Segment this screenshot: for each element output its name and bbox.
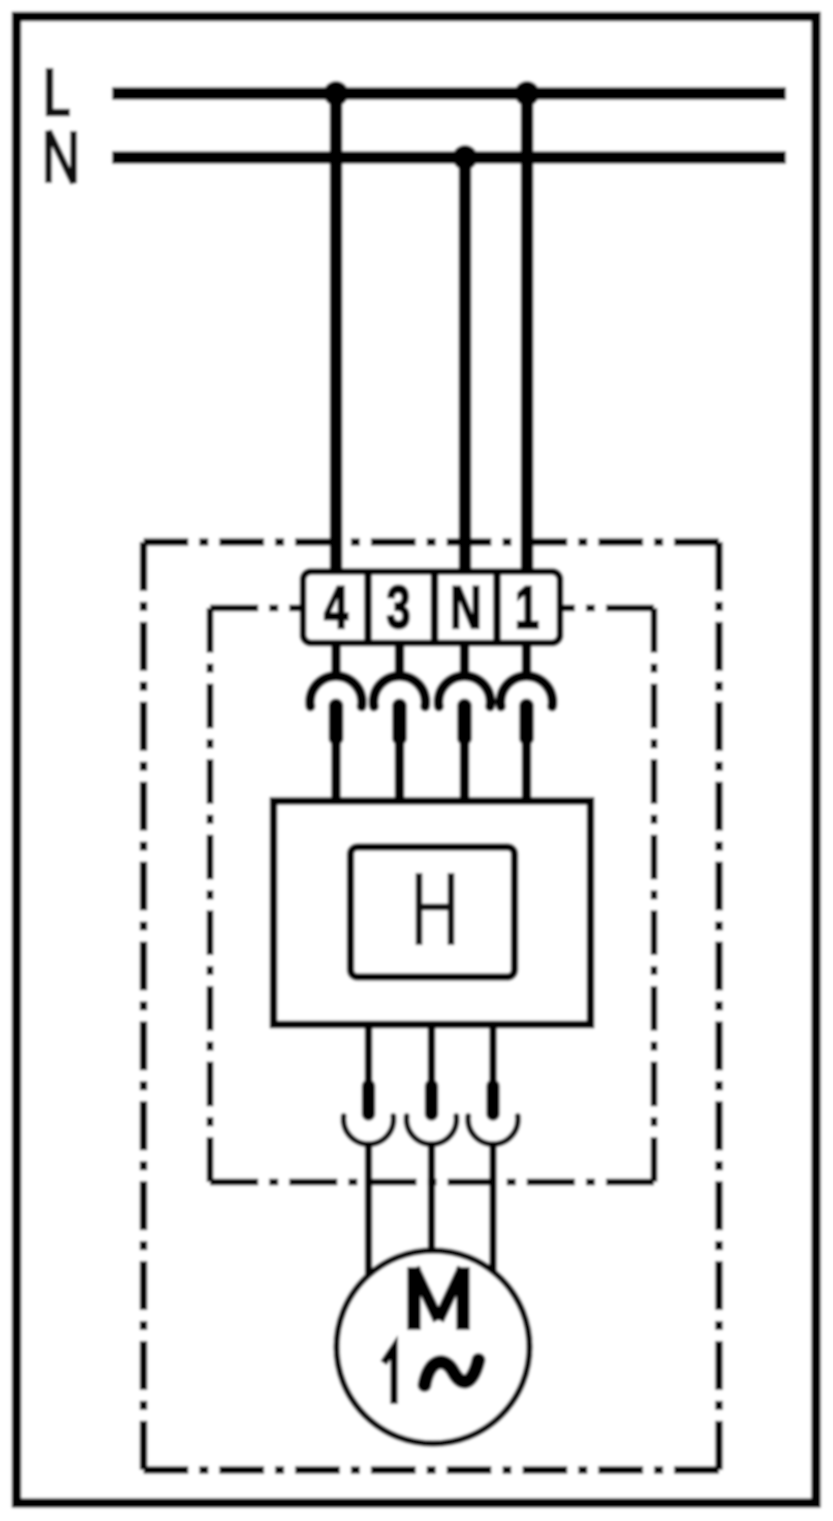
- svg-text:N: N: [450, 574, 482, 641]
- label M: [414, 1267, 463, 1330]
- terminal divider N|1: [493, 572, 501, 644]
- svg-text:4: 4: [324, 574, 348, 641]
- terminal divider 3|N: [431, 572, 439, 644]
- wire drop L to terminal 4: [330, 94, 343, 577]
- node junction dot on N at x465: [453, 145, 478, 170]
- terminal divider 4|3: [364, 572, 372, 644]
- wire L line: [112, 87, 786, 100]
- connector plug 2 (to motor): [407, 1025, 457, 1281]
- terminal block: [303, 572, 560, 644]
- label N: [49, 131, 74, 183]
- label L: [50, 68, 71, 113]
- svg-text:1: 1: [515, 574, 539, 641]
- connector plug 3 (to motor): [468, 1025, 518, 1281]
- outer dash-dot enclosure: [144, 542, 720, 1470]
- connector socket 4 (terminal 1): [501, 643, 553, 801]
- node junction dot on L at x336: [324, 81, 349, 106]
- connector socket 3 (terminal N): [439, 643, 491, 801]
- controller box: [274, 801, 591, 1025]
- connector socket 2 (terminal 3): [374, 643, 426, 801]
- wire drop N to terminal N: [459, 158, 472, 577]
- controller inner box: [351, 847, 515, 977]
- wire N line: [112, 151, 786, 164]
- inner dash-dot enclosure: [210, 608, 654, 1182]
- motor M1 circle: [337, 1251, 530, 1444]
- connector socket 1 (terminal 4): [310, 643, 362, 801]
- connector plug 1 (to motor): [344, 1025, 394, 1281]
- node junction dot on L at x527: [515, 81, 540, 106]
- label ~ (single phase): [425, 1360, 479, 1385]
- wire drop L to terminal 1: [521, 94, 534, 577]
- label 1: [384, 1348, 395, 1405]
- label H: [419, 873, 451, 945]
- svg-text:3: 3: [386, 574, 410, 641]
